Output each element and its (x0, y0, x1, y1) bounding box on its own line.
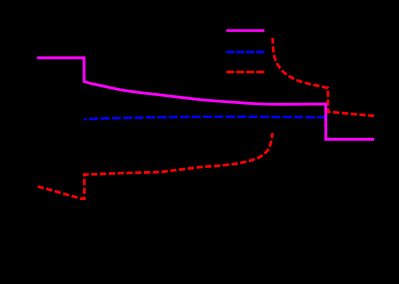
magenta curve (solid) (37, 58, 374, 140)
red curve lower-left branch (dashed) (38, 133, 273, 199)
red curve upper-right branch (dashed) (273, 38, 374, 116)
legend magenta sample (solid) (226, 29, 264, 32)
blue curve (dashed) (84, 117, 326, 119)
legend blue sample (dashed) (226, 51, 264, 54)
legend red sample (dashed) (226, 71, 264, 74)
